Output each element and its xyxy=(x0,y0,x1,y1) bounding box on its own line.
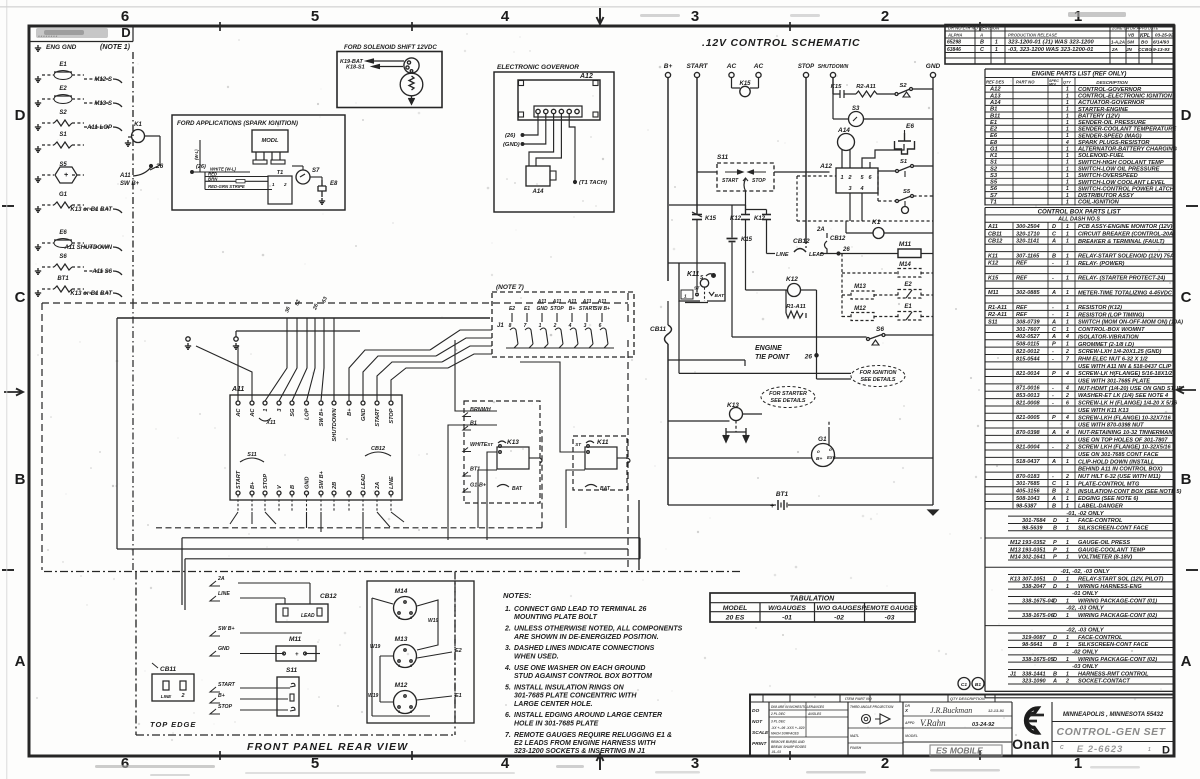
svg-text:4.: 4. xyxy=(504,665,511,672)
svg-text:SENDER-OIL PRESSURE: SENDER-OIL PRESSURE xyxy=(1078,120,1146,126)
svg-text:2: 2 xyxy=(1065,349,1069,355)
svg-text:301-7685 PLATE CONCENTRIC WITH: 301-7685 PLATE CONCENTRIC WITH xyxy=(514,693,637,700)
ignition module MODL xyxy=(252,130,288,164)
svg-text:323-1200-01 (J1) WAS 323-1200: 323-1200-01 (J1) WAS 323-1200 xyxy=(1008,40,1094,46)
svg-text:LINE: LINE xyxy=(776,252,789,258)
svg-text:LABEL-DANGER: LABEL-DANGER xyxy=(1078,503,1123,509)
engine tie point node 26 xyxy=(755,290,818,379)
governor wiring xyxy=(503,114,607,186)
svg-text:6/14/93: 6/14/93 xyxy=(1153,40,1169,46)
terminal B+ xyxy=(664,63,673,78)
svg-text:A: A xyxy=(1051,239,1056,245)
svg-text:7.: 7. xyxy=(505,732,511,739)
svg-text:KPL: KPL xyxy=(1140,33,1150,39)
svg-text:300-2504: 300-2504 xyxy=(1016,224,1041,230)
svg-text:K11: K11 xyxy=(687,271,699,278)
svg-text:4: 4 xyxy=(501,8,510,25)
svg-text:-: - xyxy=(1052,386,1054,392)
notes list xyxy=(503,591,683,755)
terminal AC xyxy=(726,63,737,78)
svg-text:ALPHA: ALPHA xyxy=(947,33,962,38)
svg-text:E2: E2 xyxy=(509,306,515,312)
A11 wiring leaders xyxy=(196,296,492,401)
svg-text:4: 4 xyxy=(1065,386,1069,392)
svg-text:(NOTE 7): (NOTE 7) xyxy=(496,284,524,291)
svg-text:GND: GND xyxy=(305,477,311,489)
svg-text:APPD: APPD xyxy=(904,721,915,725)
svg-text:BAT: BAT xyxy=(512,486,523,492)
svg-text:M13: M13 xyxy=(395,636,408,643)
svg-text:3 PL DEC: 3 PL DEC xyxy=(771,720,786,724)
svg-text:3: 3 xyxy=(691,8,699,25)
svg-text:FOR STARTER: FOR STARTER xyxy=(769,391,807,397)
ground at GND bus xyxy=(928,510,938,515)
zone numbers top and bottom xyxy=(121,8,1082,772)
svg-text:.XX +-.06 .XXX +-.020: .XX +-.06 .XXX +-.020 xyxy=(771,726,805,730)
svg-text:-03: -03 xyxy=(885,615,895,622)
svg-text:1: 1 xyxy=(1066,100,1069,106)
svg-text:-03, 323-1200 WAS 323-1200-01: -03, 323-1200 WAS 323-1200-01 xyxy=(1008,47,1093,53)
svg-text:3: 3 xyxy=(691,755,699,772)
svg-text:D: D xyxy=(121,25,130,40)
svg-text:1: 1 xyxy=(1066,459,1069,465)
svg-text:M12: M12 xyxy=(395,682,408,689)
signature area xyxy=(903,702,1012,756)
svg-text:USE ON TOP HOLES OF 301-7807: USE ON TOP HOLES OF 301-7807 xyxy=(1078,437,1168,443)
svg-text:S2: S2 xyxy=(59,110,67,116)
svg-text:REMOTE GAUGES: REMOTE GAUGES xyxy=(862,605,919,612)
svg-text:E8: E8 xyxy=(990,140,998,146)
note 1 reference xyxy=(100,44,131,51)
svg-text:1: 1 xyxy=(995,40,998,46)
svg-text:MATL: MATL xyxy=(850,734,859,738)
svg-text:BATTERY (12V): BATTERY (12V) xyxy=(1078,113,1120,119)
svg-text:1: 1 xyxy=(1066,327,1069,333)
svg-text:SOLENOID-FUEL: SOLENOID-FUEL xyxy=(1078,153,1125,159)
svg-text:START: START xyxy=(686,63,708,70)
front panel lead labels xyxy=(210,576,236,714)
svg-text:3.: 3. xyxy=(505,645,511,652)
svg-text:USE WITH 870-0398 NUT: USE WITH 870-0398 NUT xyxy=(1078,423,1144,429)
svg-text:K12: K12 xyxy=(988,261,999,267)
svg-text:REF: REF xyxy=(1016,261,1028,267)
svg-text:S2: S2 xyxy=(899,83,907,89)
svg-text:PLATE-CONTROL MTG: PLATE-CONTROL MTG xyxy=(1078,481,1140,487)
svg-text:(26): (26) xyxy=(196,164,206,170)
svg-text:E6: E6 xyxy=(990,133,998,139)
svg-text:M13: M13 xyxy=(854,284,866,290)
svg-text:SCREW LKH (FLANGE) 10-32X5/16: SCREW LKH (FLANGE) 10-32X5/16 xyxy=(1078,445,1172,451)
shift solenoid symbol xyxy=(400,58,423,104)
relay K12 coil xyxy=(746,276,817,297)
svg-text:S11: S11 xyxy=(988,320,998,326)
relay K15 coil xyxy=(727,205,753,337)
svg-text:E1: E1 xyxy=(990,120,997,126)
svg-text:12-13-91: 12-13-91 xyxy=(988,708,1005,713)
svg-text:P: P xyxy=(1052,342,1056,348)
svg-text:2A: 2A xyxy=(816,227,825,233)
svg-text:(W-L): (W-L) xyxy=(194,149,199,160)
svg-text:K11: K11 xyxy=(597,439,609,446)
sender E1 with label M12-S xyxy=(35,62,122,83)
svg-text:K1: K1 xyxy=(990,153,997,159)
svg-text:SCREW-LK H (FLANGE) 1/4-20 X 5: SCREW-LK H (FLANGE) 1/4-20 X 5/16 xyxy=(1078,401,1178,407)
svg-text:RELAY-START SOLENOID (12V) 75A: RELAY-START SOLENOID (12V) 75A xyxy=(1078,254,1174,260)
svg-text:RELAY- (POWER): RELAY- (POWER) xyxy=(1078,261,1125,267)
svg-text:871-0016: 871-0016 xyxy=(1016,386,1041,392)
svg-text:E1: E1 xyxy=(524,306,530,312)
svg-text:1: 1 xyxy=(1066,305,1069,311)
svg-text:S11: S11 xyxy=(286,667,297,674)
svg-text:2B: 2B xyxy=(332,482,338,490)
svg-text:-: - xyxy=(1052,474,1054,480)
breaker CB11 xyxy=(650,301,672,344)
svg-text:START: START xyxy=(375,408,381,427)
drawing title and number xyxy=(1052,712,1174,757)
svg-text:B+: B+ xyxy=(250,481,256,489)
svg-text:SHUTDOWN: SHUTDOWN xyxy=(332,408,338,442)
front panel rear view label xyxy=(247,741,408,753)
svg-text:405-3156: 405-3156 xyxy=(1015,489,1041,495)
svg-text:1: 1 xyxy=(1066,481,1069,487)
dashed gauge bus xyxy=(842,254,933,318)
svg-text:.12V CONTROL SCHEMATIC: .12V CONTROL SCHEMATIC xyxy=(702,37,860,49)
svg-text:M14: M14 xyxy=(899,262,911,268)
svg-text:+: + xyxy=(64,172,68,179)
breaker CB12 front panel xyxy=(238,583,337,622)
svg-text:MOUNTING PLATE BOLT: MOUNTING PLATE BOLT xyxy=(514,614,598,621)
svg-text:20 ES: 20 ES xyxy=(725,615,745,622)
svg-text:QTY DESCRIPTION: QTY DESCRIPTION xyxy=(950,697,985,701)
svg-text:B: B xyxy=(980,40,984,46)
svg-text:ENGINE: ENGINE xyxy=(755,345,782,352)
sender S2 with label A11-LOP xyxy=(35,110,122,131)
svg-text:ENG GND: ENG GND xyxy=(46,44,77,51)
svg-text:S5: S5 xyxy=(990,180,998,186)
svg-text:B1: B1 xyxy=(975,682,981,688)
svg-text:C: C xyxy=(15,289,26,306)
svg-text:98-5387: 98-5387 xyxy=(1016,503,1037,509)
sender S5 with label S5 xyxy=(35,162,84,183)
svg-text:A: A xyxy=(1181,653,1192,670)
svg-text:M14: M14 xyxy=(395,588,408,595)
svg-text:S1: S1 xyxy=(59,132,67,138)
wire START to S11 xyxy=(697,171,717,173)
svg-text:(GND): (GND) xyxy=(503,142,520,148)
do not scale print xyxy=(752,702,769,756)
svg-text:A: A xyxy=(15,653,26,670)
svg-text:3: 3 xyxy=(277,408,283,412)
svg-text:6: 6 xyxy=(121,755,129,772)
svg-text:BG: BG xyxy=(1141,40,1148,45)
svg-text:A11-LOP: A11-LOP xyxy=(86,125,113,131)
svg-text:A: A xyxy=(1051,334,1056,340)
svg-text:821-0005: 821-0005 xyxy=(1016,415,1041,421)
svg-text:26: 26 xyxy=(804,354,813,361)
svg-text:302-0885: 302-0885 xyxy=(1016,290,1041,296)
svg-text:E6: E6 xyxy=(906,123,914,130)
svg-text:A11: A11 xyxy=(582,299,592,305)
svg-text:ALTERNATOR-BATTERY CHARGING: ALTERNATOR-BATTERY CHARGING xyxy=(1077,147,1177,153)
chassis ground left xyxy=(185,337,191,349)
svg-text:26: 26 xyxy=(312,303,320,312)
svg-text:PRINT: PRINT xyxy=(752,741,767,747)
sender S6 with label A11 S6 xyxy=(35,254,122,275)
svg-text:307-1165: 307-1165 xyxy=(1016,253,1040,259)
inner bus line xyxy=(117,317,490,319)
svg-text:1: 1 xyxy=(1066,93,1069,99)
breaker CB12 vertical xyxy=(816,227,850,255)
svg-text:ST: ST xyxy=(694,286,700,291)
svg-text:MACH SURFACES: MACH SURFACES xyxy=(771,732,800,736)
svg-text:E2: E2 xyxy=(59,86,67,92)
svg-text:ACTUATOR-GOVERNOR: ACTUATOR-GOVERNOR xyxy=(1077,100,1145,106)
svg-text:1: 1 xyxy=(1066,320,1069,326)
svg-text:4: 4 xyxy=(1065,140,1069,146)
zone tick marks xyxy=(220,22,980,760)
svg-text:S6: S6 xyxy=(990,186,998,192)
svg-text:1: 1 xyxy=(1066,133,1069,139)
switch S11 start stop xyxy=(717,154,774,191)
svg-text:320-1710: 320-1710 xyxy=(1016,231,1041,237)
svg-text:STOP: STOP xyxy=(550,306,564,312)
svg-text:C: C xyxy=(1060,745,1064,751)
A12 to E6 wiring xyxy=(850,144,904,221)
svg-text:CONTROL-GOVERNOR: CONTROL-GOVERNOR xyxy=(1078,87,1142,93)
svg-text:S6: S6 xyxy=(876,326,884,333)
svg-text:-: - xyxy=(1052,400,1054,406)
svg-text:S6: S6 xyxy=(59,254,67,260)
svg-text:2: 2 xyxy=(847,175,851,181)
svg-text:6: 6 xyxy=(599,323,602,329)
svg-text:RESISTOR (LOP TIMING): RESISTOR (LOP TIMING) xyxy=(1078,312,1144,318)
svg-text:870-0398: 870-0398 xyxy=(1016,430,1041,436)
svg-text:SG: SG xyxy=(290,408,296,417)
svg-text:R2-A11: R2-A11 xyxy=(856,84,876,90)
svg-text:B1: B1 xyxy=(470,421,477,427)
svg-text:ALL DASH NO.S: ALL DASH NO.S xyxy=(1057,217,1100,223)
svg-text:(T1 TACH): (T1 TACH) xyxy=(579,180,607,186)
control box parts list table xyxy=(985,208,1183,510)
meter M12 and sender E1 dashed xyxy=(851,304,921,321)
svg-text:REF: REF xyxy=(1016,312,1028,318)
svg-text:M12-S: M12-S xyxy=(94,77,112,83)
svg-text:1: 1 xyxy=(1066,107,1069,113)
svg-text:S7: S7 xyxy=(312,168,320,174)
front panel top dashed line xyxy=(44,571,740,573)
meter M11 hour xyxy=(820,241,933,258)
svg-text:B: B xyxy=(1052,489,1056,495)
relay contacts K12 K12 xyxy=(669,205,775,290)
svg-text:A: A xyxy=(1051,496,1056,502)
svg-text:A: A xyxy=(1051,430,1056,436)
svg-text:SWITCH-LOW COOLANT LEVEL: SWITCH-LOW COOLANT LEVEL xyxy=(1078,180,1166,186)
svg-text:S11: S11 xyxy=(717,154,728,161)
right edge arrow xyxy=(1177,387,1196,394)
svg-text:A11: A11 xyxy=(987,224,998,230)
svg-text:S1: S1 xyxy=(900,159,907,165)
svg-text:G1: G1 xyxy=(818,436,827,443)
ignition coil T1 xyxy=(268,170,292,204)
svg-text:RELAY- (STARTER PROTECT-24): RELAY- (STARTER PROTECT-24) xyxy=(1078,276,1165,282)
svg-text:(NOTE 1): (NOTE 1) xyxy=(100,44,131,51)
ford applications enclosure xyxy=(172,115,345,210)
svg-text:A: A xyxy=(1051,320,1056,326)
svg-text:+: + xyxy=(770,503,774,510)
svg-text:ELECTRONIC GOVERNOR: ELECTRONIC GOVERNOR xyxy=(497,64,579,71)
svg-text:1: 1 xyxy=(1066,87,1069,93)
svg-text:CB12: CB12 xyxy=(793,238,810,245)
gauge wiring xyxy=(372,581,455,723)
meter M14 dashed xyxy=(898,262,921,277)
svg-text:26: 26 xyxy=(155,163,164,170)
meter M11 front panel xyxy=(240,633,320,661)
svg-text:ISOLATOR-VIBRATION: ISOLATOR-VIBRATION xyxy=(1078,334,1140,340)
svg-text:REF DES: REF DES xyxy=(986,80,1004,85)
svg-text:ES MOBILE: ES MOBILE xyxy=(936,746,983,756)
svg-text:-02: -02 xyxy=(834,615,844,622)
svg-text:CB12: CB12 xyxy=(830,236,846,242)
svg-text:3: 3 xyxy=(848,186,851,192)
svg-text:THIRD ANGLE PROJECTION: THIRD ANGLE PROJECTION xyxy=(850,705,894,709)
for ignition see details xyxy=(851,366,905,387)
svg-text:E2: E2 xyxy=(455,648,462,654)
terminal AC xyxy=(753,63,764,78)
svg-text:-: - xyxy=(1052,393,1054,399)
svg-text:S3: S3 xyxy=(990,173,998,179)
svg-text:USE WITH 301-7685 PLATE: USE WITH 301-7685 PLATE xyxy=(1078,379,1150,385)
svg-text:REF: REF xyxy=(1016,305,1028,311)
svg-text:65298: 65298 xyxy=(947,40,961,46)
svg-text:53: 53 xyxy=(321,296,329,304)
svg-text:B+: B+ xyxy=(347,408,353,416)
svg-text:5: 5 xyxy=(311,755,319,772)
svg-text:SEE DETAILS: SEE DETAILS xyxy=(861,377,896,383)
svg-text:LINE: LINE xyxy=(389,476,395,489)
svg-text:BRNWH: BRNWH xyxy=(470,407,491,413)
svg-text:M11: M11 xyxy=(988,290,998,296)
svg-text:2A: 2A xyxy=(217,576,225,582)
svg-text:LINE: LINE xyxy=(218,591,230,597)
svg-text:SPARK PLUGS-RESISTOR: SPARK PLUGS-RESISTOR xyxy=(1078,140,1150,146)
svg-text:K13 or B1 BAT: K13 or B1 BAT xyxy=(70,291,113,297)
svg-text:ENGINE PARTS LIST (REF ONLY): ENGINE PARTS LIST (REF ONLY) xyxy=(1032,72,1127,78)
svg-text:2: 2 xyxy=(1065,444,1069,450)
svg-text:ST: ST xyxy=(575,442,582,447)
svg-text:R1-A11: R1-A11 xyxy=(988,305,1007,311)
svg-text:(26): (26) xyxy=(505,133,515,139)
svg-text:821-0008: 821-0008 xyxy=(1016,400,1041,406)
svg-text:7: 7 xyxy=(1066,356,1070,362)
svg-text:1: 1 xyxy=(1066,253,1069,259)
svg-text:2: 2 xyxy=(1065,474,1069,480)
switch S1 high coolant temp xyxy=(878,159,933,177)
svg-text:WASHER-ET LK (1/4) SEE NOTE 4: WASHER-ET LK (1/4) SEE NOTE 4 xyxy=(1078,393,1169,399)
spark plug E8 with ground xyxy=(310,177,338,204)
braces S11 CB12 xyxy=(240,446,391,462)
svg-text:D: D xyxy=(15,107,26,124)
svg-text:D: D xyxy=(1052,224,1056,230)
svg-text:BEHIND A11 IN CONTROL BOX): BEHIND A11 IN CONTROL BOX) xyxy=(1078,467,1163,473)
breaker CB12 line lead xyxy=(776,238,824,258)
svg-text:M13-S: M13-S xyxy=(94,101,112,107)
svg-text:1: 1 xyxy=(1066,290,1069,296)
svg-text:4: 4 xyxy=(1065,371,1069,377)
svg-text:INSULATION-CONT BOX (SEE NOTE: INSULATION-CONT BOX (SEE NOTE 5) xyxy=(1078,489,1182,495)
svg-text:UNLESS OTHERWISE NOTED, ALL CO: UNLESS OTHERWISE NOTED, ALL COMPONENTS xyxy=(514,626,683,633)
svg-text:-01: -01 xyxy=(782,615,792,622)
svg-text:T1: T1 xyxy=(990,199,997,205)
svg-text:K15: K15 xyxy=(831,84,842,90)
svg-text:o: o xyxy=(817,449,820,454)
svg-text:START: START xyxy=(722,178,739,184)
svg-text:G1: G1 xyxy=(59,192,68,198)
svg-text:A11 SHUTDOWN: A11 SHUTDOWN xyxy=(63,245,112,251)
solenoid shift leads K19-BAT K18-S1 xyxy=(340,59,404,71)
svg-text:RESISTOR (K12): RESISTOR (K12) xyxy=(1078,305,1122,311)
svg-text:K13: K13 xyxy=(507,439,519,446)
svg-text:1: 1 xyxy=(1066,166,1069,172)
svg-text:REMOVE BURRS AND: REMOVE BURRS AND xyxy=(771,740,805,744)
svg-text:1: 1 xyxy=(1066,503,1069,509)
sheet zone D cell and smudged title xyxy=(30,25,133,42)
svg-text:B: B xyxy=(1052,503,1056,509)
node 26 A11 SW B+ xyxy=(119,163,164,187)
svg-text:SEE DETAILS: SEE DETAILS xyxy=(771,398,806,404)
ford solenoid shift enclosure xyxy=(337,44,442,108)
svg-text:1: 1 xyxy=(1066,186,1069,192)
svg-text:6.: 6. xyxy=(505,712,511,719)
sender E6 speed xyxy=(895,123,915,154)
svg-text:-: - xyxy=(1052,305,1054,311)
svg-text:1: 1 xyxy=(1066,342,1069,348)
breaker CB11 front panel xyxy=(152,663,194,701)
svg-text:B: B xyxy=(290,485,296,489)
svg-text:S11: S11 xyxy=(247,452,256,458)
svg-text:301-7607: 301-7607 xyxy=(1016,327,1041,333)
svg-text:SW B+: SW B+ xyxy=(120,181,140,187)
sender S1 with label S1 xyxy=(35,132,84,152)
svg-text:Onan: Onan xyxy=(1012,736,1050,752)
governor control A12 xyxy=(518,73,600,120)
svg-text:AC: AC xyxy=(250,408,256,418)
svg-text:CONTROL-ELECTRONIC IGNITION: CONTROL-ELECTRONIC IGNITION xyxy=(1078,94,1173,100)
svg-text:8: 8 xyxy=(509,323,512,329)
svg-text:4: 4 xyxy=(501,755,510,772)
left dash-dot boundary xyxy=(132,52,134,302)
wire S11 to SHUTDOWN line xyxy=(774,171,830,173)
svg-text:52: 52 xyxy=(294,299,302,307)
battery BT1 xyxy=(668,491,933,510)
svg-text:A12: A12 xyxy=(819,163,832,170)
switch S5 low coolant level xyxy=(878,189,933,214)
for starter see details xyxy=(761,387,815,408)
svg-text:2 PL DEC: 2 PL DEC xyxy=(770,712,786,716)
svg-text:+: + xyxy=(295,652,299,658)
svg-text:508-1043: 508-1043 xyxy=(1016,496,1041,502)
svg-text:1: 1 xyxy=(1066,199,1069,205)
terminal GND xyxy=(926,63,941,78)
control box dashed boundary xyxy=(42,293,628,571)
governor control A12 block xyxy=(819,163,878,193)
svg-text:NOTES:: NOTES: xyxy=(503,591,532,600)
svg-text:GND: GND xyxy=(218,646,230,652)
wire STOP vertical xyxy=(805,78,807,244)
svg-text:1: 1 xyxy=(1066,153,1069,159)
balloon references C1 B1 xyxy=(958,678,984,690)
terminal START xyxy=(686,63,708,78)
svg-text:B11: B11 xyxy=(990,113,1000,119)
